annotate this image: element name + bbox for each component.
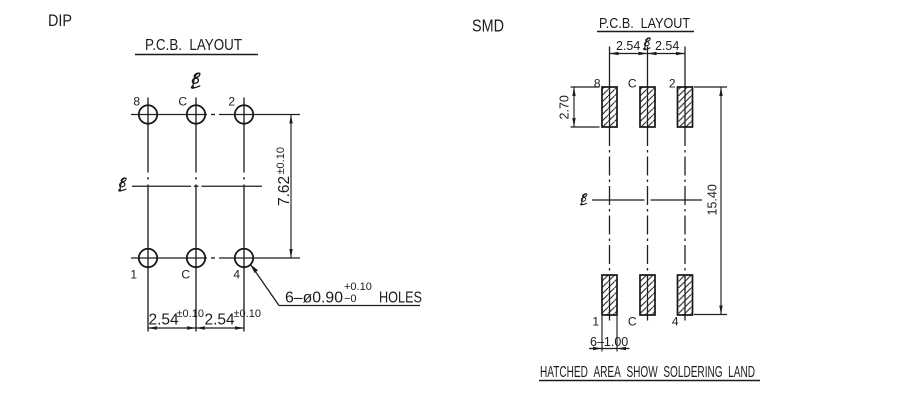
svg-text:C: C [181,268,190,282]
svg-text:8: 8 [133,95,140,109]
wire vertical centerline col 3 (SMD) [684,47,686,321]
svg-text:4: 4 [672,315,679,329]
svg-text:2.54: 2.54 [616,39,640,53]
pad pin C top [640,87,655,127]
dimension 7.62 arrow up [289,115,292,124]
svg-text:1: 1 [592,315,599,329]
dimension 7.62 arrow down [289,249,292,258]
dimension 15.40 (SMD) [694,86,727,88]
svg-text:2.54: 2.54 [205,312,236,329]
svg-text:−0: −0 [344,293,357,305]
pad pin 8 [602,87,617,127]
dimension 2.54 left (DIP) line [148,327,244,329]
wire horizontal centerline top row (DIP) [131,114,300,116]
pad pin 2 [678,87,693,127]
svg-text:P.C.B. LAYOUT: P.C.B. LAYOUT [145,37,242,54]
svg-text:2.54: 2.54 [655,39,679,53]
hole pin 8 [139,105,157,123]
hole pin 1 [139,249,157,267]
title underline (DIP) [135,54,258,56]
svg-text:6–ø0.90: 6–ø0.90 [285,290,343,307]
svg-text:HATCHED AREA SHOW SOLDERING: HATCHED AREA SHOW SOLDERING LAND [540,364,755,381]
svg-text:8: 8 [594,77,601,91]
wire horizontal centerline bottom row (DIP) [131,257,300,259]
svg-text:2: 2 [669,77,676,91]
svg-text:SMD: SMD [472,16,504,36]
svg-text:C: C [628,77,637,91]
centerline symbol top (DIP) [191,72,200,88]
wire vertical centerline col 3 (DIP) [243,98,245,332]
svg-text:C: C [628,315,637,329]
wire vertical centerline col 1 (SMD) [609,47,611,321]
centerline symbol left (DIP) [119,177,127,191]
dimension 2.70 (SMD) [571,86,600,88]
svg-text:+0.10: +0.10 [344,281,372,293]
hole pin 4 [235,249,253,267]
svg-text:±0.10: ±0.10 [275,147,287,174]
svg-text:7.62: 7.62 [276,176,293,206]
pad pin C bottom [640,275,655,315]
pad pin 1 [602,275,617,315]
svg-text:1: 1 [130,268,137,282]
leader line to holes note [251,265,280,306]
svg-text:±0.10: ±0.10 [177,308,204,320]
hole pin 2 [235,105,253,123]
svg-text:4: 4 [233,268,240,282]
wire horizontal centerline middle (DIP) [132,185,262,187]
svg-text:6–1.00: 6–1.00 [590,335,628,349]
note underline [539,380,760,382]
leader arrowhead [251,265,259,274]
svg-text:HOLES: HOLES [379,290,422,307]
wire vertical centerline col 1 (DIP) [147,98,149,332]
centerline symbol top (SMD) [644,37,651,49]
svg-text:P.C.B. LAYOUT: P.C.B. LAYOUT [599,15,690,32]
svg-text:2: 2 [228,95,235,109]
svg-text:2.54: 2.54 [149,312,180,329]
svg-text:2.70: 2.70 [558,95,572,119]
wire vertical centerline col C (SMD) [647,47,649,321]
hole pin C top [187,105,205,123]
wire vertical centerline col C (DIP) [195,98,197,332]
wire horizontal centerline middle (SMD) [592,199,702,201]
dimension 6-1.00 (SMD) [601,316,603,352]
dimension arrow at col 3 [235,326,244,329]
dimension arrow at col1 [148,326,157,329]
dimension 7.62 text [275,147,293,206]
centerline symbol left (SMD) [581,193,588,205]
dimension 2.54-2.54 top (SMD) [610,53,686,55]
dimension arrows at col C [187,326,196,329]
svg-text:DIP: DIP [48,11,72,30]
pad pin 4 [678,275,693,315]
svg-text:±0.10: ±0.10 [234,308,261,320]
svg-text:15.40: 15.40 [706,184,720,215]
dimension 7.62 line [290,115,292,259]
title underline (SMD) [597,31,694,33]
svg-text:C: C [178,95,187,109]
hole pin C bottom [187,249,205,267]
